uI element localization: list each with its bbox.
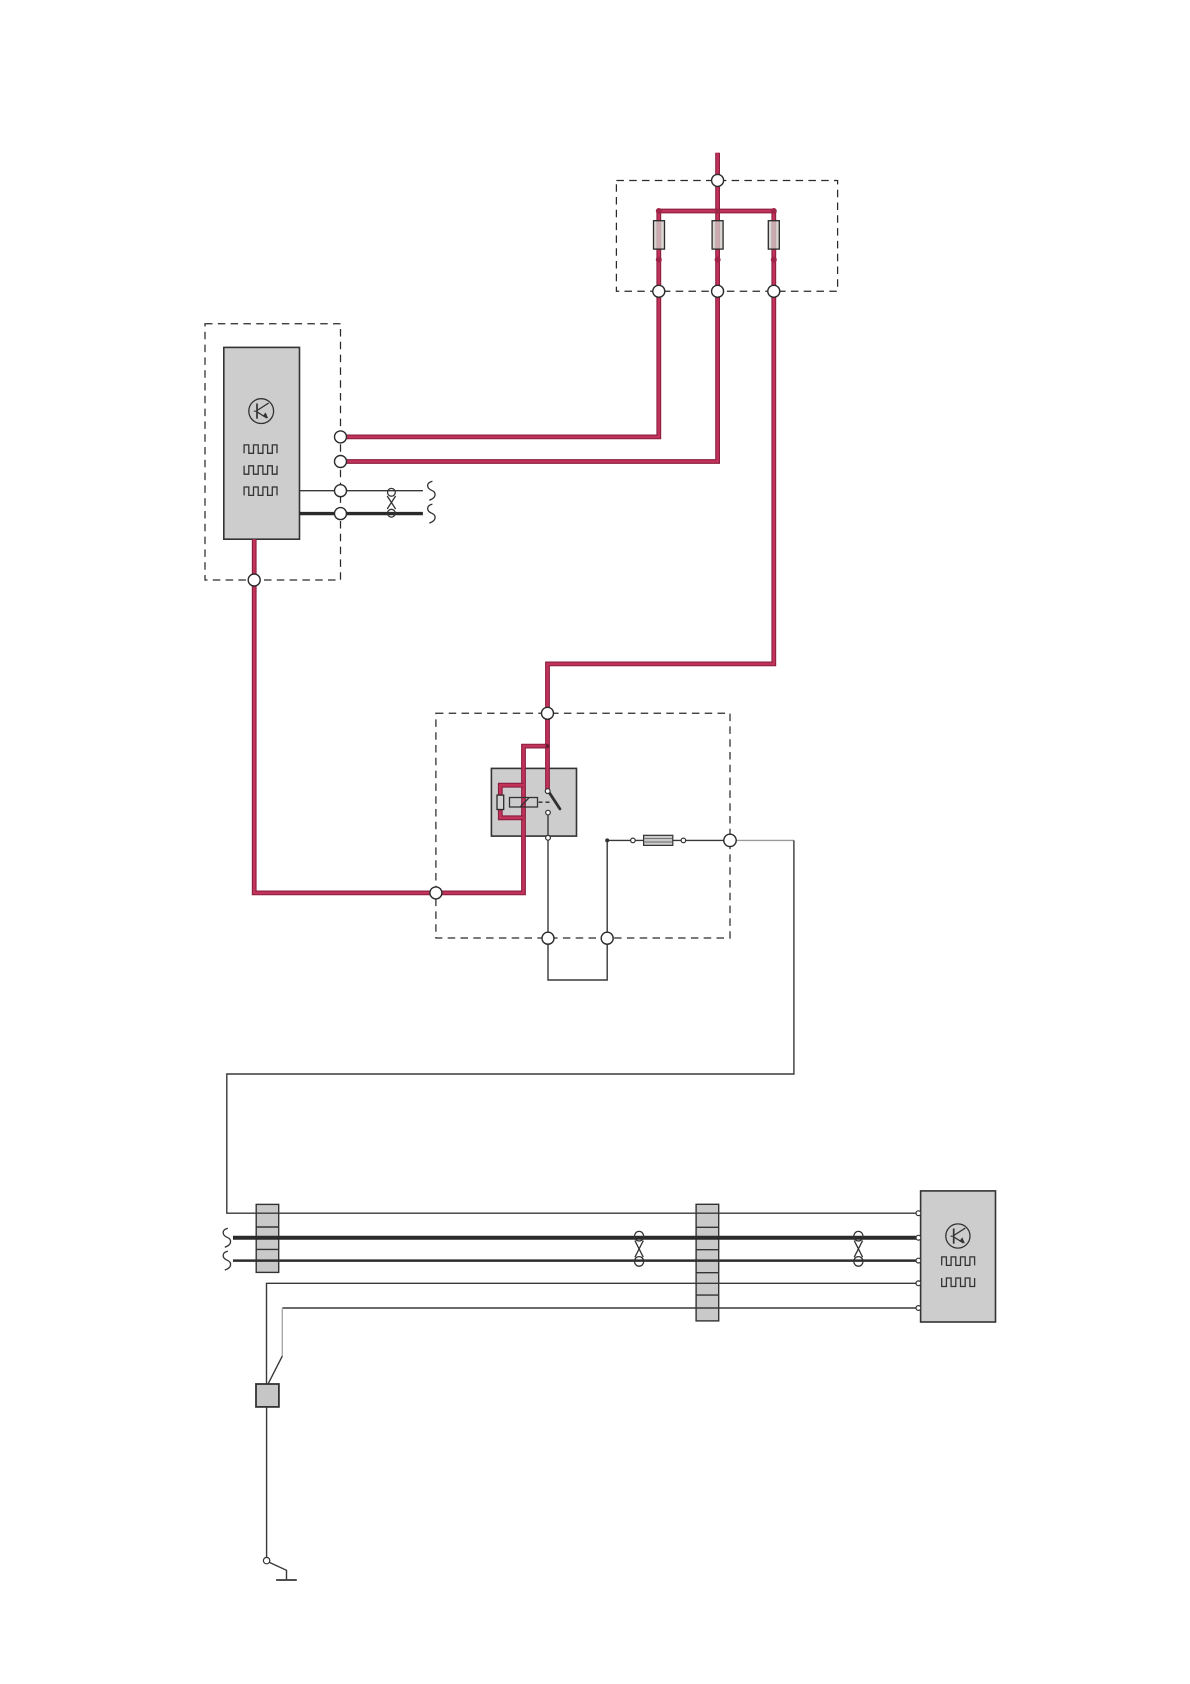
node: relay fused output connector (724, 834, 736, 846)
node: relay coil return pin (430, 887, 442, 899)
control module B body (921, 1191, 996, 1322)
relay armature (510, 798, 538, 808)
splice box (256, 1384, 279, 1407)
node: module A pin 4 (335, 508, 347, 520)
transistor symbol module B (946, 1224, 970, 1248)
node: fuse box outlet 2 (712, 285, 724, 297)
node: relay supply pin (542, 707, 554, 719)
control module A body (224, 347, 300, 539)
junction: relay coil branch (546, 744, 550, 748)
wire: lower harness wire 2 (thick) (233, 1236, 921, 1240)
fuse F3 (768, 221, 779, 249)
node: module B pin 5 (916, 1306, 921, 1311)
break symbol harness wire 3 (223, 1251, 230, 1270)
node: module A pin 3 (335, 485, 347, 497)
wire: lower harness wire 5 horizontal (282, 1307, 920, 1309)
wire: relay coil feed and return (red) to module A ground pin (254, 539, 547, 893)
break symbol harness wire 2 (223, 1228, 230, 1247)
node: module A ground pin (248, 574, 260, 586)
wire: fuse supply bus (red) (659, 209, 774, 214)
wire: fuse 3 branch (red) to relay switch supply (548, 211, 774, 791)
wire: long route from relay output down-left to lower harness wire 1 (227, 840, 921, 1213)
junction: bus right end (771, 208, 777, 214)
junction: bus center (715, 209, 720, 214)
connector block C1 (3-way) (256, 1204, 279, 1272)
relay switch pivot (545, 789, 550, 794)
relay switch lower contact (546, 810, 551, 815)
break symbol wire A3 (428, 481, 435, 500)
node: module B pin 2 (916, 1235, 921, 1240)
fuse F2 (712, 221, 723, 249)
wire: connector to corner (light segment) (730, 839, 794, 841)
relay K body (491, 768, 576, 836)
wire: module A pin 3 signal (thin) (300, 490, 423, 492)
wire: relay coil loop (red) (500, 785, 523, 818)
transistor symbol module A (249, 399, 274, 424)
junction: bus left end (656, 208, 662, 214)
in-line fuse body (644, 835, 673, 845)
junction: relay output branch (605, 838, 609, 842)
fuse box 11/1 (dashed enclosure) (616, 181, 837, 292)
node: fuse box outlet 1 (653, 285, 665, 297)
node: module A pin 1 (335, 431, 347, 443)
control module A enclosure (dashed) (205, 324, 341, 580)
node: fuse box outlet 3 (768, 285, 780, 297)
in-line fuse right terminal (681, 838, 686, 843)
node: module A pin 2 (335, 456, 347, 468)
wire: ground contact diagonal link (269, 1562, 286, 1579)
signal symbol B row 1 (942, 1257, 975, 1266)
junction: below fuse F2 (715, 257, 721, 263)
twisted pair symbol harness right (854, 1231, 863, 1266)
relay pin at case edge (546, 835, 551, 840)
node: relay output pin b (601, 932, 613, 944)
wire: lower harness wire 4 to splice (267, 1283, 921, 1384)
twisted pair symbol harness left (635, 1231, 644, 1266)
relay switch arm (549, 793, 560, 809)
relay enclosure (dashed) (436, 713, 730, 938)
node: supply connector at fuse box top (712, 174, 724, 186)
fuse F1 (654, 221, 665, 249)
wire: wire 5 diagonal into splice (268, 1356, 282, 1384)
signal symbol A row 3 (244, 487, 277, 495)
connector block C2 (5-way) (696, 1204, 719, 1321)
signal symbol A row 2 (244, 466, 277, 474)
wire: splice to ground contact (266, 1407, 268, 1558)
junction: below fuse F1 (656, 257, 662, 263)
node: relay output pin a (542, 932, 554, 944)
wire: relay switch output to connector pins with jumper loop (548, 815, 607, 980)
signal symbol B row 2 (942, 1278, 975, 1287)
wire: module A pin 4 signal (thick) (300, 512, 423, 515)
signal symbol A row 1 (244, 445, 277, 453)
node: module B pin 4 (916, 1281, 921, 1286)
relay actuating link (dashed) (539, 801, 552, 803)
twisted pair symbol at module A (387, 488, 395, 517)
wire: main supply feed 30 (red) from top through fuse 2 to module A pin 2 (341, 153, 718, 462)
wire: wire 5 drop (light segment) (281, 1308, 283, 1356)
ground contact circle (263, 1557, 269, 1563)
wire: relay output to in-line fuse and connector (607, 839, 730, 841)
ground symbol bar (276, 1579, 297, 1581)
wire: fuse 1 branch (red) to module A pin 1 (341, 211, 659, 437)
junction: below fuse F3 (771, 257, 777, 263)
in-line fuse left terminal (631, 838, 636, 843)
wire: lower harness wire 3 (medium) (233, 1259, 921, 1262)
relay coil element (497, 795, 504, 809)
node: module B pin 3 (916, 1258, 921, 1263)
node: module B pin 1 (916, 1211, 921, 1216)
break symbol wire A4 (428, 504, 435, 523)
